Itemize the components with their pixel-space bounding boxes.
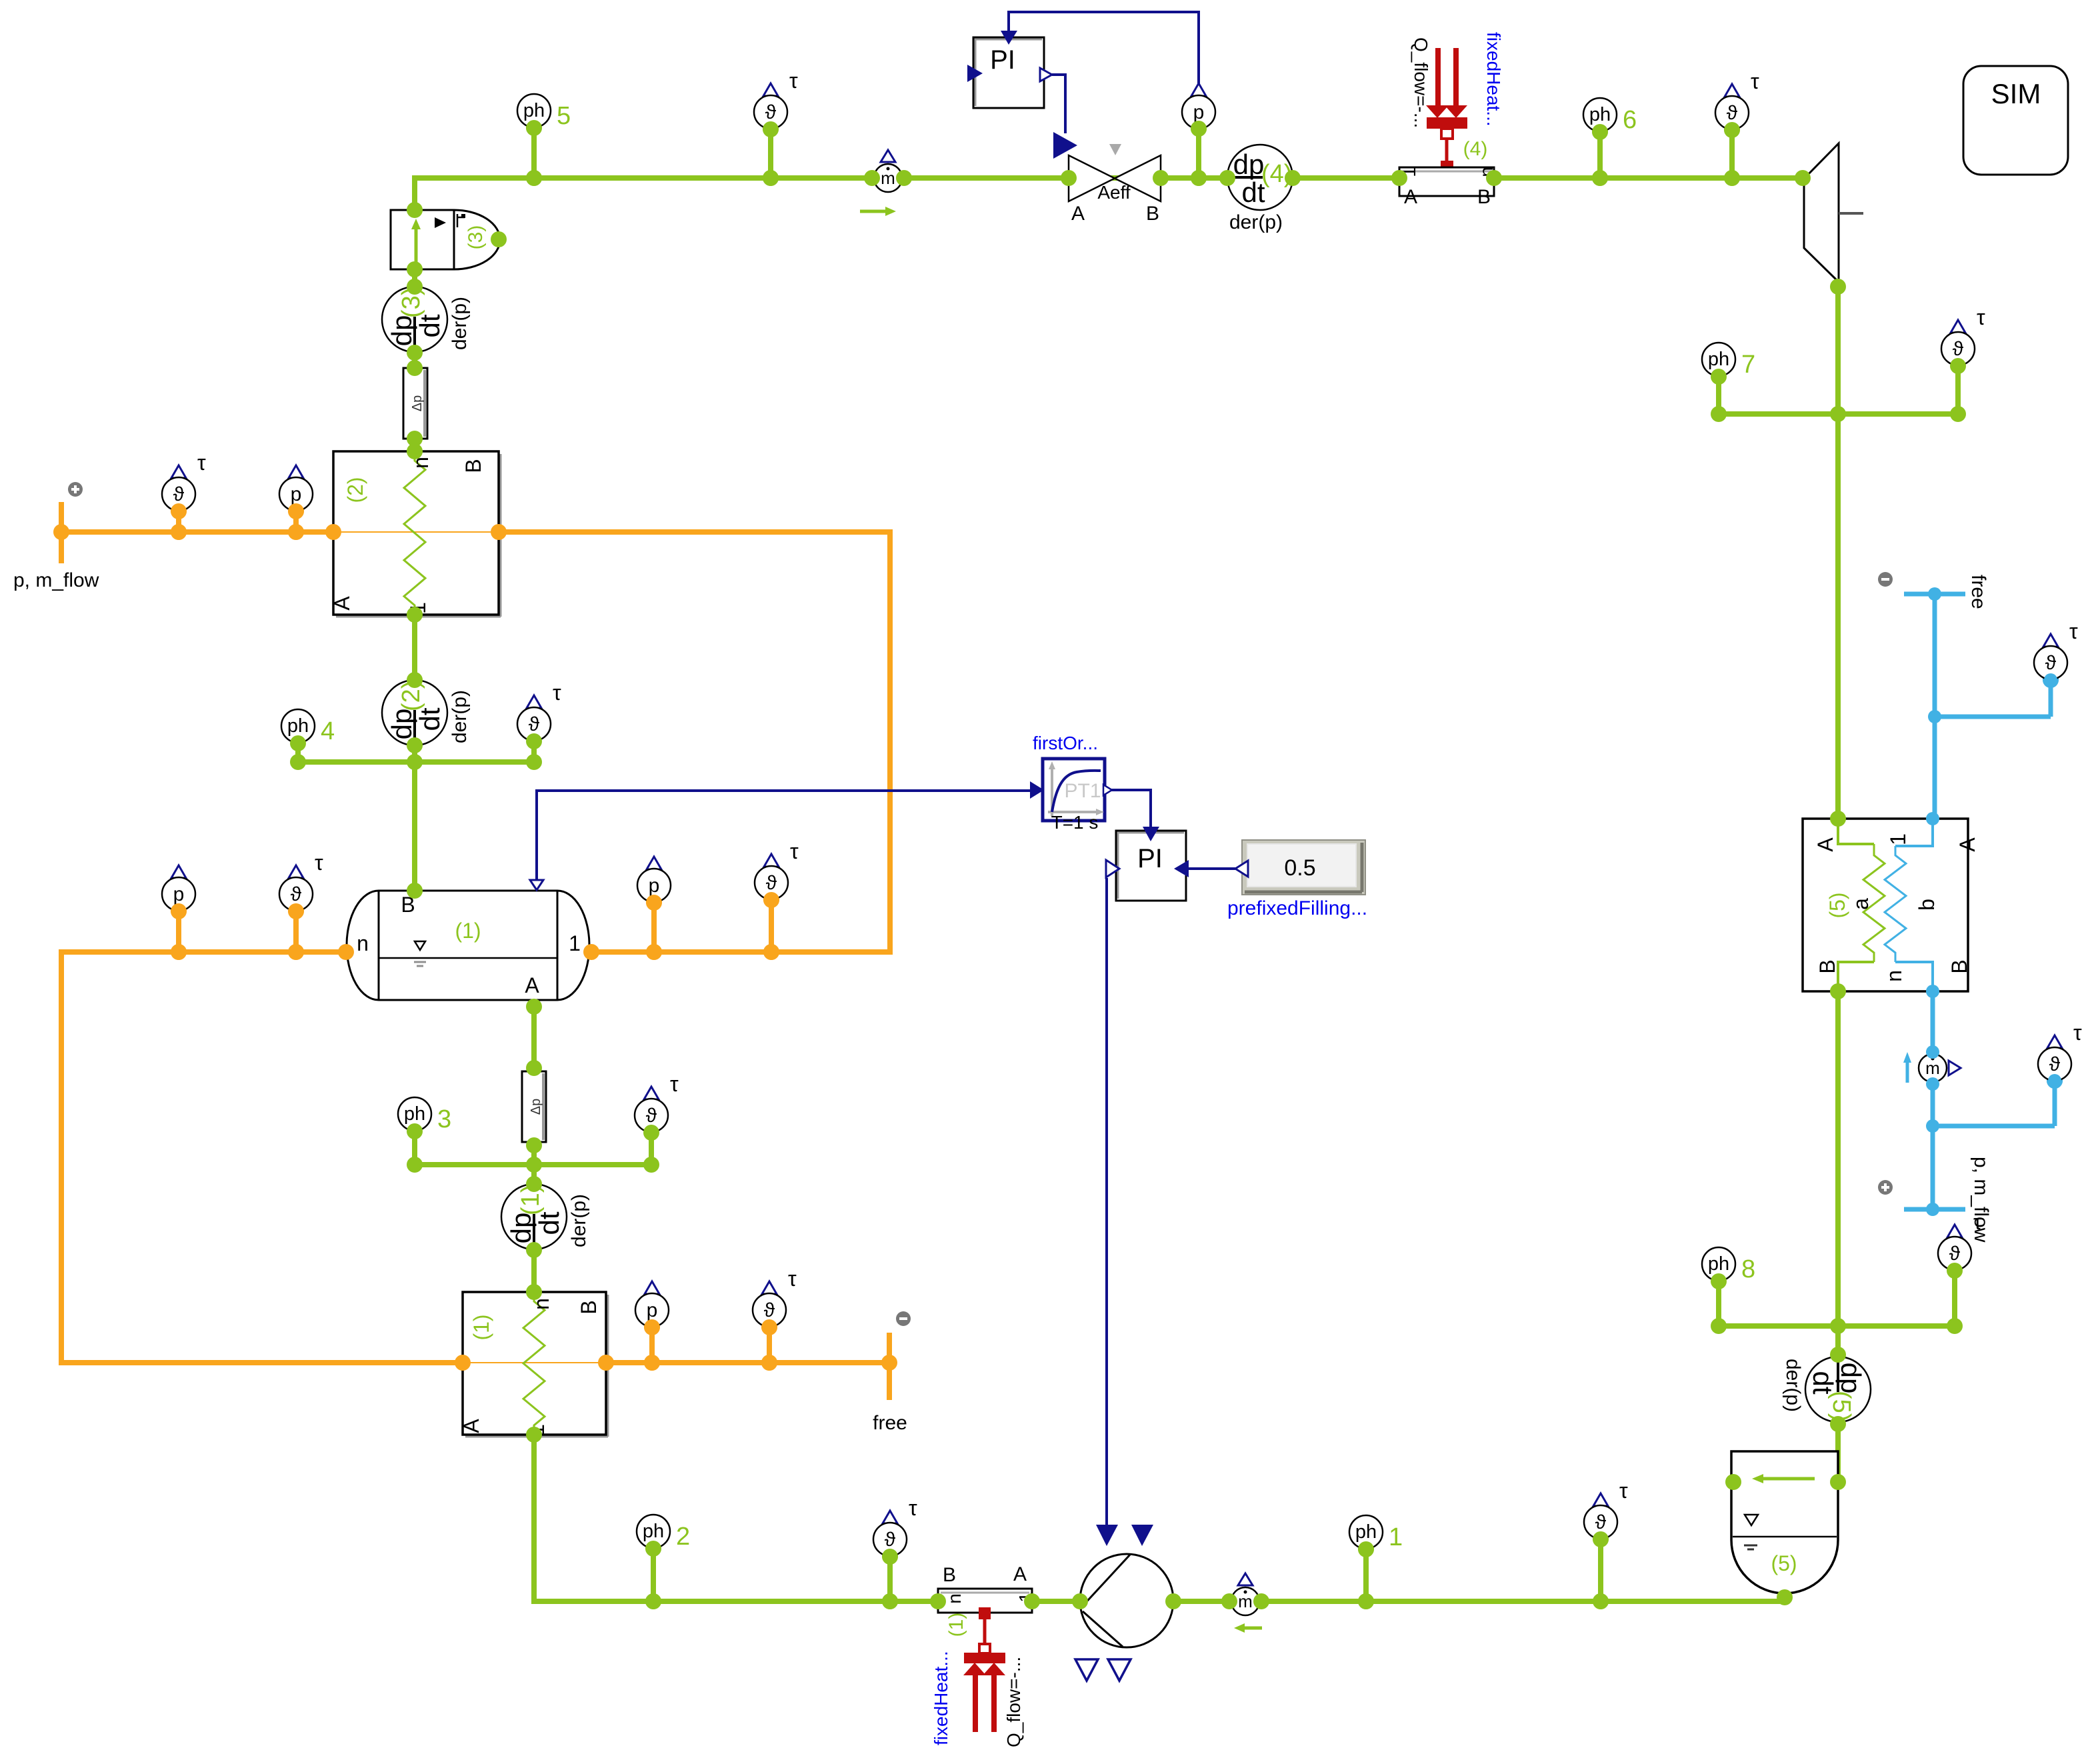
junction dots gas bottom bus [455, 1319, 897, 1371]
sensor p gas top 2 [279, 465, 313, 540]
svg-text:τ: τ [1751, 69, 1759, 93]
svg-text:ϑ: ϑ [173, 483, 185, 505]
svg-text:firstOr...: firstOr... [1033, 733, 1098, 753]
svg-text:p: p [1193, 101, 1205, 123]
valve actuator arrow [1053, 132, 1077, 159]
svg-text:n: n [944, 1593, 965, 1604]
sensor ph4 [281, 709, 335, 745]
sensor theta-tau bottom-left [873, 1496, 917, 1609]
svg-text:τ: τ [1619, 1479, 1628, 1503]
wire steam pump3 to der3 [412, 269, 417, 287]
junction dots ph2 ph1 stubs [645, 1531, 1609, 1565]
sensor theta-tau gas bottom 2 [753, 1267, 797, 1371]
svg-text:Q_flow=-...: Q_flow=-... [1411, 37, 1431, 128]
svg-text:free: free [873, 1412, 907, 1434]
constant block 0.5 [1235, 840, 1365, 895]
junction dots tank1 steam [407, 883, 542, 1443]
svg-text:fixedHeat...: fixedHeat... [931, 1651, 951, 1745]
wire steam der2 to tank1 port B [412, 745, 417, 891]
svg-text:prefixedFilling...: prefixedFilling... [1227, 897, 1367, 919]
controller PI1 [967, 31, 1052, 108]
wire steam hx2 to der2 [412, 615, 417, 680]
svg-text:1: 1 [569, 931, 581, 955]
svg-text:(3): (3) [465, 225, 487, 250]
svg-text:ph: ph [643, 1521, 664, 1542]
svg-text:p, m_flow: p, m_flow [13, 569, 99, 591]
svg-text:A: A [1071, 203, 1085, 225]
pressure-loss element dp1 [403, 368, 427, 439]
junction dots ph8 branch [1711, 1263, 1963, 1334]
svg-text:ϑ: ϑ [291, 883, 302, 905]
wire control tank1 level to PT1 [537, 791, 1032, 880]
svg-text:7: 7 [1741, 351, 1755, 379]
heater HT4 fixed heat flow [1426, 48, 1467, 173]
svg-text:ph: ph [1708, 349, 1729, 370]
derivative block der4 [1227, 145, 1293, 233]
sensor p gas mid 1 [162, 865, 195, 960]
svg-text:dp: dp [1233, 149, 1265, 180]
sensor ph8 [1702, 1247, 1755, 1283]
junction dots steam top bus [526, 170, 1811, 186]
junction dots steam ph5 theta [526, 120, 1740, 140]
junction dots hx5 steam [1830, 811, 1846, 1490]
junction dots ph3 branch [407, 1123, 659, 1173]
sensor theta-tau gas mid 4 [755, 839, 799, 960]
sensor ph3 [398, 1097, 451, 1133]
svg-text:der(p): der(p) [449, 297, 471, 350]
svg-text:B: B [1947, 959, 1971, 973]
derivative block der5 [1782, 1357, 1871, 1422]
svg-text:3: 3 [437, 1105, 451, 1133]
svg-text:a: a [1849, 898, 1873, 910]
wire cool sink terminal bar [1904, 1207, 1965, 1212]
svg-text:A: A [330, 596, 354, 611]
sink terminal icon cooling [1878, 1180, 1893, 1195]
svg-text:ph: ph [404, 1103, 425, 1125]
svg-text:dp: dp [505, 1213, 537, 1244]
sensor theta-tau cooling top [2034, 619, 2078, 688]
svg-text:ϑ: ϑ [765, 101, 777, 123]
svg-text:B: B [1815, 959, 1839, 973]
sensor ph7 [1702, 343, 1755, 379]
sensor p gas bottom 1 [635, 1281, 669, 1371]
svg-text:τ: τ [789, 69, 798, 93]
wire gas tank1 n to hx1 [61, 952, 463, 1363]
wire steam dp-valve2 to der1 [531, 1145, 537, 1184]
sensor theta-tau der1 branch [635, 1072, 679, 1132]
junction dots ph7 branch [1711, 358, 1966, 422]
svg-text:B: B [943, 1564, 956, 1586]
sensor ph6 [1583, 98, 1637, 186]
svg-text:ph: ph [1589, 104, 1611, 125]
svg-text:ϑ: ϑ [885, 1529, 896, 1551]
svg-text:ph: ph [1708, 1253, 1729, 1275]
svg-text:τ: τ [2073, 1021, 2082, 1045]
wire cool hx5 n to sink [1931, 991, 1935, 1209]
wire steam ph3-theta branch [415, 1131, 651, 1165]
svg-text:τ: τ [553, 681, 561, 705]
svg-text:B: B [577, 1300, 601, 1314]
svg-text:B: B [1146, 203, 1159, 225]
sensor mdot steam top [860, 150, 902, 216]
svg-text:τ: τ [2069, 619, 2078, 643]
svg-text:τ: τ [790, 839, 799, 863]
svg-text:m: m [881, 168, 895, 188]
wire steam der5 to tank5 [1835, 1424, 1841, 1482]
heat-exchanger HX1 [459, 1292, 608, 1437]
svg-text:1: 1 [1389, 1523, 1403, 1551]
wire steam tank1 A to dp-valve2 [531, 1007, 537, 1068]
svg-text:ϑ: ϑ [2049, 1053, 2061, 1075]
junction dots bottom bus [645, 1589, 1793, 1609]
sensor theta-tau cooling bottom [2038, 1021, 2082, 1089]
svg-text:A: A [1955, 837, 1979, 852]
sensor ph2 [637, 1515, 690, 1609]
svg-text:τ: τ [909, 1496, 917, 1520]
svg-text:p: p [647, 1299, 658, 1321]
svg-text:τ: τ [1977, 305, 1985, 329]
wire gas free terminal bar [887, 1333, 892, 1400]
wire cool theta branch top [1935, 680, 2051, 717]
heated pipe HX4 [1399, 167, 1497, 208]
wire gas hx1 to free terminal [606, 1360, 889, 1365]
wire steam ph8-theta branch [1719, 1271, 1955, 1326]
svg-text:(5): (5) [1825, 892, 1849, 918]
free terminal icon gas [896, 1311, 911, 1326]
heat-exchanger HX2 [330, 451, 501, 617]
wire steam der1 to hx1 [531, 1250, 537, 1292]
first order block PT1 [1030, 759, 1112, 821]
svg-text:T=1 s: T=1 s [1051, 812, 1099, 833]
sensor theta-tau hx5 branch [1938, 1210, 1982, 1270]
free terminal icon cooling [1878, 572, 1893, 587]
svg-text:ph: ph [523, 100, 545, 121]
svg-text:(1): (1) [469, 1314, 493, 1340]
wire gas through hx1 [463, 1362, 606, 1363]
sensor theta-tau top-right [1715, 69, 1759, 186]
junction dots tank5 [1725, 1474, 1741, 1490]
svg-text:ph: ph [287, 715, 309, 737]
svg-text:2: 2 [676, 1523, 690, 1551]
heated pipe HXB of heater HT1 [938, 1563, 1036, 1613]
svg-text:ϑ: ϑ [646, 1105, 657, 1127]
wire steam dp-valve1 to hx2 [412, 439, 417, 451]
svg-text:SIM: SIM [1991, 78, 2041, 109]
svg-text:4: 4 [321, 717, 335, 745]
svg-text:ph: ph [1355, 1521, 1377, 1543]
svg-text:b: b [1915, 899, 1939, 911]
sensor theta-tau der2 branch [517, 681, 561, 741]
svg-text:1: 1 [1886, 833, 1910, 845]
svg-text:ϑ: ϑ [1949, 1243, 1961, 1265]
svg-text:B: B [1477, 186, 1491, 208]
svg-text:dp: dp [386, 709, 417, 740]
tank T5 vertical vessel [1731, 1451, 1838, 1593]
svg-text:Δp: Δp [410, 395, 425, 411]
svg-text:6: 6 [1623, 106, 1637, 134]
svg-text:m: m [1238, 1591, 1253, 1611]
derivative block der2 [382, 680, 471, 745]
svg-text:ϑ: ϑ [529, 713, 540, 735]
wire gas through hx2 [333, 531, 499, 533]
svg-text:ϑ: ϑ [764, 1299, 775, 1321]
svg-text:m: m [1925, 1058, 1940, 1078]
level sensor connector on tank T1 [530, 880, 543, 890]
svg-text:0.5: 0.5 [1284, 855, 1315, 881]
wire steam top main bus [415, 178, 1803, 210]
svg-text:n: n [1882, 970, 1906, 982]
svg-text:Aeff: Aeff [1097, 182, 1131, 203]
svg-text:τ: τ [1973, 1210, 1982, 1234]
svg-text:free: free [1967, 575, 1989, 609]
wire control PI1 output to valve [1052, 75, 1065, 133]
tank T1 horizontal vessel [347, 891, 589, 1000]
junction dots mdot cooling [1926, 1045, 1939, 1091]
junction dots pump3 column [407, 202, 507, 770]
svg-text:τ: τ [788, 1267, 797, 1291]
wire control const to PI2 [1189, 867, 1235, 870]
wire gas top bus left [61, 529, 333, 535]
wire control PI1 to p sensor [1009, 12, 1199, 88]
wire steam ph4-theta branch [298, 741, 534, 762]
svg-text:(5): (5) [1771, 1551, 1797, 1575]
wire steam turbine outlet down to hx5 [1835, 287, 1841, 819]
wire cool theta branch bottom [1933, 1081, 2055, 1126]
sensor mdot steam bottom [1231, 1573, 1262, 1633]
source terminal icon gas [68, 482, 83, 497]
svg-text:Q_flow=-...: Q_flow=-... [1003, 1657, 1024, 1747]
sensor ph1 [1349, 1515, 1403, 1609]
pump P3 [391, 210, 500, 269]
pump P5 speed input arrows [1096, 1525, 1118, 1546]
svg-text:τ: τ [670, 1072, 679, 1096]
sensor theta-tau gas top 1 [162, 451, 206, 540]
svg-text:ϑ: ϑ [1953, 338, 1964, 360]
pump P5 lower connectors [1075, 1659, 1098, 1681]
svg-text:A: A [1404, 186, 1417, 208]
svg-text:(4): (4) [1463, 138, 1488, 160]
svg-text:A: A [1813, 837, 1837, 852]
sensor theta-tau top-left [754, 69, 798, 186]
svg-text:PI: PI [990, 45, 1015, 75]
svg-text:der(p): der(p) [1782, 1359, 1804, 1412]
wire cool free terminal [1904, 594, 1965, 819]
wire steam hx1 to bottom bus to tank5 [534, 1435, 1785, 1601]
svg-text:A: A [459, 1419, 483, 1433]
svg-text:der(p): der(p) [449, 690, 471, 743]
svg-text:dp: dp [386, 315, 417, 347]
svg-text:ϑ: ϑ [1727, 102, 1738, 124]
svg-text:ϑ: ϑ [2045, 652, 2057, 674]
wire control PT1 to PI2 [1111, 790, 1151, 827]
junction dots gas mid bus [171, 892, 779, 960]
svg-text:dp: dp [1835, 1363, 1867, 1394]
wire control PI2 to pump5 [1105, 878, 1108, 1525]
wire steam der3 to dp-valve1 [412, 353, 417, 368]
simulation settings box SIM [1963, 66, 2068, 175]
svg-text:PT1: PT1 [1064, 780, 1101, 802]
svg-text:der(p): der(p) [568, 1194, 590, 1247]
sensor p1 (valve outlet pressure) [1182, 83, 1215, 186]
sensor mdot cooling [1903, 1052, 1961, 1083]
svg-text:der(p): der(p) [1229, 211, 1283, 233]
svg-text:8: 8 [1741, 1255, 1755, 1283]
svg-text:p: p [173, 883, 185, 905]
svg-text:ϑ: ϑ [1595, 1511, 1607, 1533]
svg-text:p: p [291, 483, 302, 505]
heater HT1 fixed heat flow [963, 1607, 1005, 1732]
sensor ph5 [517, 94, 571, 186]
pressure-loss element dp2 [522, 1071, 546, 1142]
svg-text:(1): (1) [455, 919, 481, 943]
sensor p gas mid 3 [637, 857, 671, 960]
junction dots cooling [1926, 587, 2061, 1216]
pump P5 [1080, 1554, 1173, 1647]
junction dots turbine [1830, 279, 1846, 422]
controller PI2 [1106, 827, 1189, 901]
svg-text:Δp: Δp [529, 1099, 543, 1115]
svg-text:B: B [461, 459, 485, 473]
junction dots gas top bus [53, 503, 507, 540]
svg-text:PI: PI [1137, 844, 1163, 873]
svg-text:fixedHeat...: fixedHeat... [1483, 32, 1504, 127]
svg-text:τ: τ [197, 451, 206, 475]
svg-text:A: A [1013, 1563, 1027, 1585]
derivative block der3 [382, 287, 471, 352]
junction dots ph4 branch [290, 733, 542, 770]
junction dots mdot steam top [864, 170, 912, 186]
heat-exchanger HX5 condenser [1803, 819, 1979, 991]
sensor theta-tau gas mid 2 [279, 851, 323, 960]
wire gas source terminal bar [59, 502, 64, 563]
sensor theta-tau bottom-right [1584, 1479, 1628, 1609]
svg-text:p: p [649, 875, 660, 897]
wire gas hx2 to tank1 port 1 [499, 532, 890, 952]
junction dots mdot steam bottom [1221, 1593, 1269, 1609]
svg-text:(2): (2) [343, 477, 367, 503]
svg-text:τ: τ [315, 851, 323, 875]
sensor theta-tau turbine branch [1941, 305, 1985, 365]
svg-text:ϑ: ϑ [766, 872, 777, 894]
svg-text:A: A [525, 973, 539, 997]
svg-text:5: 5 [557, 102, 571, 130]
wire steam ph7-theta branch [1719, 366, 1958, 414]
turbine TU1 [1804, 143, 1863, 282]
wire steam hx5 B down to der5 [1835, 991, 1841, 1355]
derivative block der1 [501, 1184, 590, 1249]
svg-text:(1): (1) [945, 1613, 967, 1637]
svg-text:n: n [357, 931, 369, 955]
valve V1 Aeff [1069, 144, 1161, 225]
